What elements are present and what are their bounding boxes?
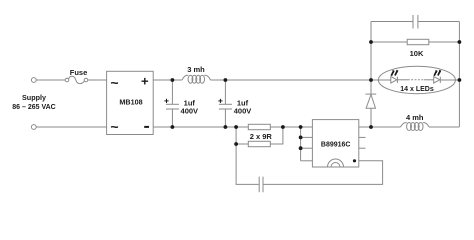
inductor L2 4mh — [401, 123, 430, 131]
wire right rail — [458, 22, 460, 128]
wire top rail 3mh to LED node — [211, 79, 372, 81]
wire top branch right — [418, 21, 460, 23]
node R pair left — [234, 125, 238, 129]
wire R2 right link — [270, 127, 283, 144]
chip stub pin right 2 — [359, 147, 366, 149]
node chip bus pin1 — [299, 125, 303, 129]
wire bottom capacitor to chip pin — [263, 161, 383, 185]
LED2 emission arrows — [434, 70, 441, 76]
wire R2 left link — [236, 127, 248, 144]
svg-text:3 mh: 3 mh — [187, 65, 205, 74]
capacitor C1 1uf 400V — [166, 80, 179, 127]
node top rail C1 — [171, 78, 175, 82]
svg-text:~: ~ — [110, 119, 118, 135]
diode D1 — [365, 80, 376, 127]
wire bottom rail bridge to R1 — [153, 126, 248, 128]
chip stub pin right 1 — [359, 136, 366, 138]
controller IC B89916C — [312, 120, 358, 167]
capacitor C2 1uf 400V — [219, 80, 232, 127]
wire diode node to 4mh — [371, 126, 401, 128]
wire 10K branch right — [429, 41, 460, 43]
node chip bus pin2 — [299, 136, 303, 140]
fuse F1 — [65, 76, 88, 83]
svg-text:~: ~ — [110, 74, 118, 90]
svg-text:B89916C: B89916C — [321, 141, 351, 148]
wire left rail LED node up — [370, 22, 372, 81]
capacitor C4 — [413, 15, 418, 29]
wire 4mh to right rail — [429, 126, 459, 128]
LED D2 — [391, 77, 398, 83]
bridge rectifier MB108 — [107, 71, 154, 134]
node LED right — [458, 78, 462, 82]
node bottom rail C1 — [171, 125, 175, 129]
wire top input to fuse — [36, 79, 65, 81]
chip pin1 marker dot — [353, 159, 356, 162]
wire chip right pin to diode node — [359, 126, 371, 128]
node top rail C2 — [224, 78, 228, 82]
chip bottom notch arcs — [328, 159, 344, 167]
resistor R1 9R — [248, 124, 270, 129]
svg-text:400V: 400V — [234, 107, 252, 116]
wire bottom input to bridge — [36, 126, 106, 128]
node diode anode — [369, 125, 373, 129]
svg-text:MB108: MB108 — [119, 98, 142, 107]
wire fuse to bridge — [88, 79, 107, 81]
wire top branch left — [371, 21, 413, 23]
wire top rail bridge to 3mh — [153, 79, 182, 81]
symbol - — [144, 126, 149, 128]
svg-text:10K: 10K — [410, 49, 424, 58]
node R pair right — [281, 125, 285, 129]
wire 10K branch left — [371, 41, 407, 43]
inductor L1 3mh — [182, 75, 211, 83]
node bottom rail C2 — [224, 125, 228, 129]
LED D3 — [434, 77, 441, 83]
svg-text:86 – 265 VAC: 86 – 265 VAC — [12, 104, 55, 111]
plus sign C2 — [218, 99, 222, 103]
svg-text:14 x LEDs: 14 x LEDs — [400, 86, 434, 93]
node LED left — [369, 78, 373, 82]
wire LED2 to right node — [440, 79, 459, 81]
wire bottom rail R1 to chip bus — [270, 126, 312, 128]
wire LED node to LED1 — [371, 79, 391, 81]
node 10K left — [369, 40, 373, 44]
svg-text:4 mh: 4 mh — [406, 113, 424, 122]
resistor R2 9R — [248, 141, 270, 146]
resistor R3 10K — [407, 39, 429, 44]
svg-text:+: + — [141, 74, 149, 89]
node 10K right — [458, 40, 462, 44]
svg-text:Supply: Supply — [22, 93, 46, 102]
terminal bottom input — [31, 125, 36, 130]
node chip bus pin3 — [299, 146, 303, 150]
terminal top input — [31, 78, 36, 83]
capacitor C3 — [259, 177, 263, 193]
LED1 emission arrows — [391, 70, 398, 76]
LED string ellipse — [378, 66, 455, 93]
svg-text:Fuse: Fuse — [70, 68, 88, 77]
svg-text:2 x 9R: 2 x 9R — [250, 132, 273, 141]
node R2 left tap — [234, 142, 238, 146]
dashed wire between LEDs — [397, 79, 408, 81]
svg-text:400V: 400V — [181, 107, 199, 116]
wire chip left pin bus — [301, 127, 313, 161]
plus sign C1 — [164, 99, 168, 103]
wire node to bottom capacitor — [236, 144, 259, 184]
